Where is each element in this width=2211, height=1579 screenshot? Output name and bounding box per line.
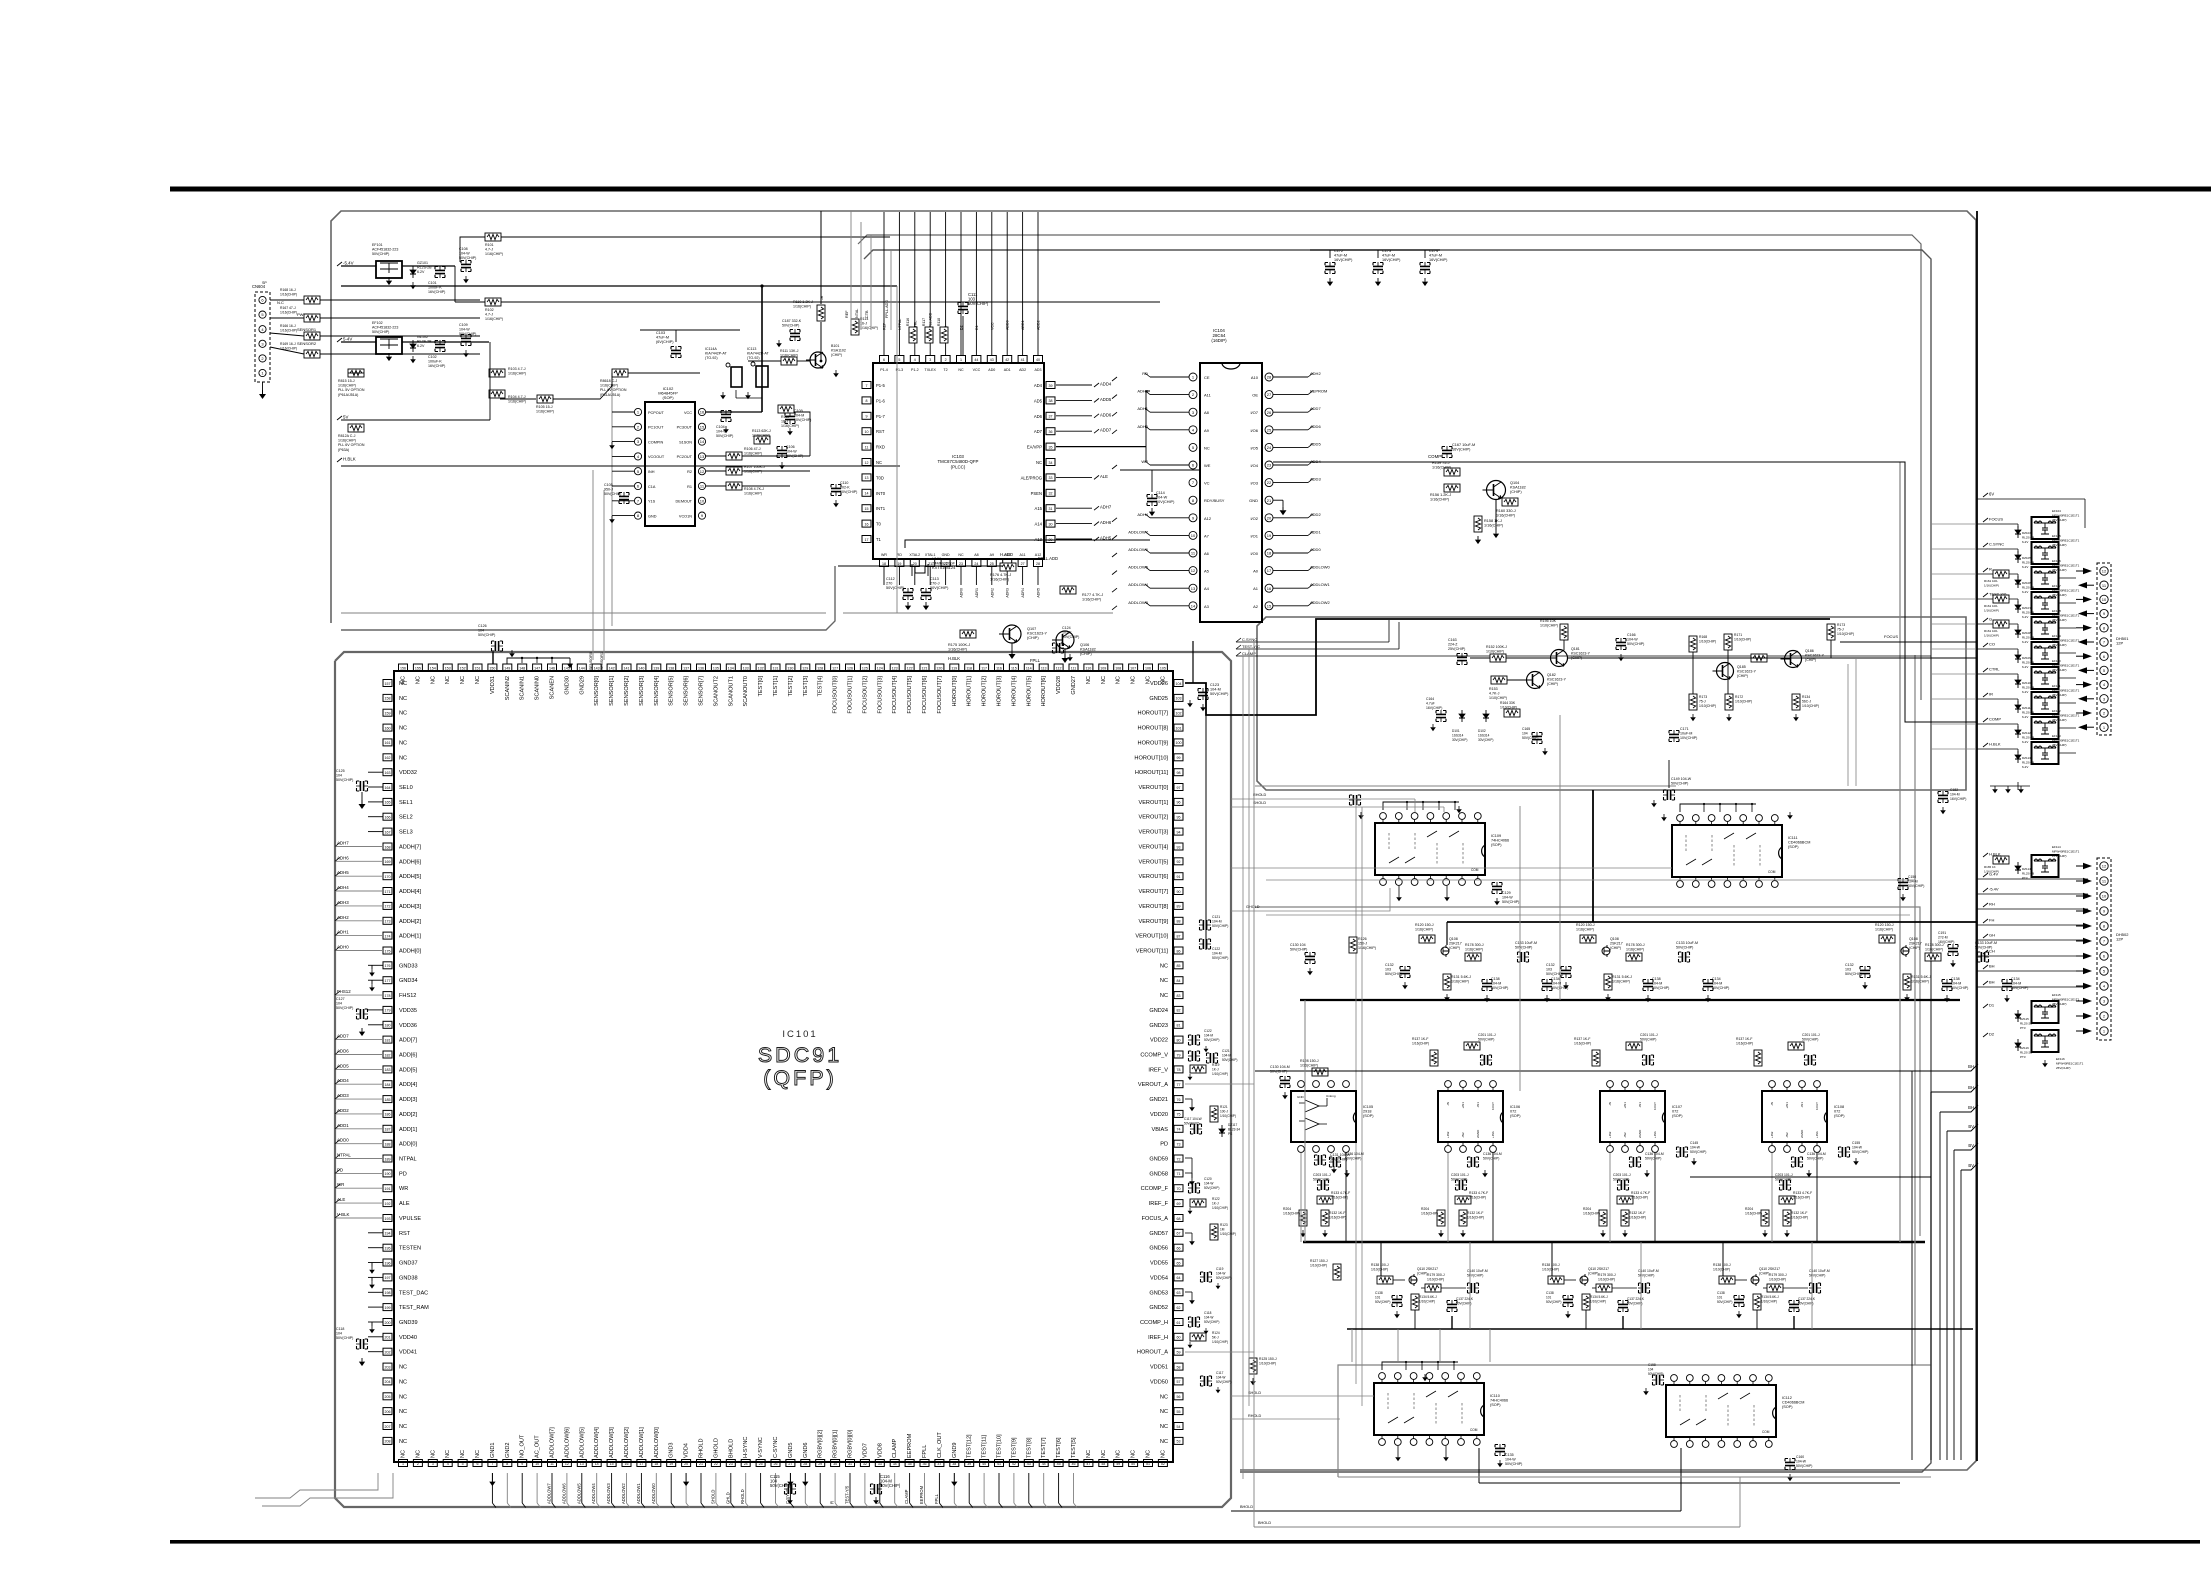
svg-text:60: 60 [1177, 1336, 1181, 1340]
resistor R171 vertical [1724, 634, 1732, 650]
svg-text:121: 121 [922, 666, 928, 670]
wire EF outputs to DH501 [2058, 577, 2076, 579]
IC109 top wires and grounds [1383, 802, 1459, 810]
capacitor C126 on container top [491, 641, 503, 651]
svg-text:50: 50 [1131, 1462, 1135, 1466]
svg-text:R156 1.2K-J: R156 1.2K-J [1430, 493, 1451, 497]
svg-text:12: 12 [2102, 864, 2107, 869]
wire scan bus above IC101 [507, 658, 570, 664]
svg-text:50V(CHIP): 50V(CHIP) [1184, 1122, 1199, 1126]
svg-text:50V(CHIP): 50V(CHIP) [1908, 884, 1924, 888]
svg-text:1M: 1M [1220, 1228, 1225, 1232]
svg-text:32: 32 [1049, 492, 1053, 496]
wire bottom switch box [1338, 1365, 1931, 1477]
svg-text:105: 105 [1160, 666, 1166, 670]
svg-text:IC105: IC105 [1363, 1105, 1373, 1109]
svg-text:ACF451832-223: ACF451832-223 [372, 248, 398, 252]
svg-text:SENSOR[7]: SENSOR[7] [699, 676, 705, 706]
svg-text:GND53: GND53 [1149, 1290, 1168, 1296]
capacitor C173 [1373, 262, 1383, 274]
svg-text:25V(CHIP): 25V(CHIP) [2052, 1002, 2067, 1006]
svg-text:NC: NC [1160, 978, 1168, 984]
svg-text:1/16(CHIP): 1/16(CHIP) [1451, 980, 1469, 984]
svg-text:ADD4: ADD4 [337, 1078, 349, 1083]
svg-text:1/16(CHIP): 1/16(CHIP) [948, 648, 968, 652]
svg-text:GHOLD: GHOLD [713, 1438, 719, 1458]
svg-text:GND29: GND29 [579, 676, 585, 695]
svg-text:GND56: GND56 [1149, 1246, 1168, 1252]
svg-text:AD4: AD4 [1034, 383, 1043, 388]
svg-text:139: 139 [653, 666, 659, 670]
svg-text:SEL1: SEL1 [399, 800, 413, 806]
svg-text:HOROUT[8]: HOROUT[8] [1138, 726, 1169, 732]
svg-text:1/10(CHIP): 1/10(CHIP) [1419, 1300, 1435, 1304]
svg-text:R133 4.7K-F: R133 4.7K-F [1631, 1191, 1650, 1195]
svg-text:GND52: GND52 [1149, 1305, 1168, 1311]
svg-text:1OUT: 1OUT [1815, 1102, 1819, 1110]
connector CN604 [255, 292, 270, 382]
svg-text:9: 9 [521, 1462, 523, 1466]
svg-text:163: 163 [385, 771, 391, 775]
svg-text:1K-J: 1K-J [1212, 1202, 1219, 1206]
svg-text:-IN: -IN [1446, 1102, 1450, 1106]
svg-text:19: 19 [669, 1462, 673, 1466]
svg-text:C1A: C1A [648, 485, 656, 489]
svg-text:1/16(CHIP): 1/16(CHIP) [1745, 1212, 1762, 1216]
svg-text:EF104: EF104 [2052, 509, 2061, 513]
capacitor C119 at VDD54 [1200, 1272, 1212, 1282]
svg-text:198: 198 [385, 1291, 391, 1295]
EMI filter EF114 [1983, 853, 1988, 857]
svg-text:VCC: VCC [973, 368, 981, 372]
svg-text:70: 70 [1177, 1187, 1181, 1191]
svg-text:50V(CHIP): 50V(CHIP) [1796, 1464, 1812, 1468]
svg-text:Unlong: Unlong [1326, 1094, 1336, 1098]
svg-text:2SK217: 2SK217 [1610, 942, 1623, 946]
svg-text:ADH3: ADH3 [337, 900, 349, 905]
capacitor C117 at VDD50 [1200, 1376, 1212, 1386]
svg-text:166: 166 [385, 816, 391, 820]
svg-text:C136 104-M: C136 104-M [1483, 1152, 1502, 1156]
svg-text:50V(CHIP): 50V(CHIP) [1645, 1157, 1661, 1161]
wire amp feeds [1563, 640, 1565, 650]
svg-text:4.7-J: 4.7-J [485, 248, 493, 252]
svg-text:186: 186 [385, 1113, 391, 1117]
transistor Q186 [1781, 651, 1802, 668]
svg-text:-IN1: -IN1 [1638, 1102, 1642, 1108]
svg-text:50V(CHIP): 50V(CHIP) [1546, 1300, 1561, 1304]
svg-text:1/10(CHIP): 1/10(CHIP) [1371, 1268, 1388, 1272]
svg-text:187: 187 [385, 1128, 391, 1132]
svg-text:N.C: N.C [277, 300, 284, 305]
capacitor C127 at IC101 left edge [356, 1009, 368, 1019]
svg-text:(SOP): (SOP) [1782, 1405, 1793, 1409]
svg-text:42: 42 [1012, 1462, 1016, 1466]
svg-text:183: 183 [385, 1068, 391, 1072]
svg-text:R177 4.7K-J: R177 4.7K-J [1082, 593, 1103, 597]
svg-text:R: R [830, 1501, 835, 1504]
svg-text:2GND: 2GND [1638, 1129, 1642, 1138]
svg-text:ADH6: ADH6 [337, 855, 349, 860]
svg-text:61: 61 [1177, 1321, 1181, 1325]
IC110 top wires [1382, 1362, 1458, 1370]
svg-text:A2: A2 [1253, 604, 1259, 609]
svg-text:203: 203 [385, 1365, 391, 1369]
EMI filter EF110 with zener DZ110 net CTRL [1983, 668, 1988, 672]
svg-text:C.SYNC: C.SYNC [1242, 637, 1257, 642]
svg-text:91: 91 [1177, 875, 1181, 879]
svg-text:VDD7: VDD7 [862, 1443, 868, 1458]
svg-text:C203 101-J: C203 101-J [1613, 1173, 1631, 1177]
svg-text:VDD55: VDD55 [1150, 1261, 1168, 1267]
resistor R110 vertical [817, 305, 825, 321]
svg-text:FPLL: FPLL [922, 1445, 928, 1458]
svg-text:138: 138 [668, 666, 674, 670]
svg-text:-5.4V: -5.4V [343, 261, 354, 266]
svg-text:R131 5.6K-J: R131 5.6K-J [1612, 975, 1632, 979]
svg-text:R122: R122 [1212, 1197, 1220, 1201]
svg-text:104-W: 104-W [1216, 1376, 1225, 1380]
svg-text:H-SYNC: H-SYNC [743, 1437, 749, 1458]
svg-text:R176 4.7K-J: R176 4.7K-J [990, 573, 1011, 577]
svg-text:S1SON: S1SON [679, 440, 692, 444]
svg-text:82: 82 [1177, 1009, 1181, 1013]
svg-text:R178 300-J: R178 300-J [1465, 943, 1484, 947]
svg-text:103: 103 [1176, 697, 1182, 701]
svg-text:R195 10K: R195 10K [1540, 619, 1557, 623]
svg-text:CCOMP_H: CCOMP_H [1140, 1320, 1168, 1326]
wire cap rail top right [1310, 249, 1440, 251]
svg-text:16: 16 [865, 522, 869, 526]
svg-text:4.7uF: 4.7uF [1426, 702, 1435, 706]
svg-text:1/16(CHIP): 1/16(CHIP) [1300, 1064, 1318, 1068]
svg-text:RHOLD: RHOLD [1253, 793, 1267, 797]
svg-text:R165 1K: R165 1K [1984, 865, 1996, 869]
svg-text:VBIAS: VBIAS [1152, 1127, 1169, 1133]
svg-text:13: 13 [1191, 586, 1196, 591]
svg-text:104-M: 104-M [1491, 982, 1501, 986]
IC102 right pins [698, 408, 705, 415]
svg-text:97: 97 [1177, 786, 1181, 790]
op-amp IC104 EEPROM body [1200, 363, 1262, 622]
IC104 right pins [1265, 373, 1273, 381]
transistor Q181 [1547, 650, 1568, 667]
svg-text:50V(CHIP): 50V(CHIP) [1852, 1150, 1868, 1154]
svg-text:180: 180 [385, 1024, 391, 1028]
svg-text:VCC: VCC [684, 411, 692, 415]
svg-text:25V(CHIP): 25V(CHIP) [2056, 1066, 2071, 1070]
svg-text:1/10(CHIP): 1/10(CHIP) [1540, 624, 1558, 628]
resistor R184 between Q185 Q186 [1751, 654, 1767, 662]
wire 5V rail [341, 419, 490, 421]
svg-text:ADD[6]: ADD[6] [399, 1053, 417, 1059]
IC101 top pin boxes row (pins 156-105) [399, 664, 408, 671]
svg-text:(SOP): (SOP) [1490, 1403, 1501, 1407]
svg-text:24: 24 [1267, 445, 1272, 450]
svg-text:TEST[2]: TEST[2] [788, 676, 794, 697]
svg-text:1/10(CHIP): 1/10(CHIP) [1310, 1264, 1327, 1268]
svg-text:35: 35 [908, 1462, 912, 1466]
svg-text:5: 5 [898, 358, 900, 362]
capacitor C120 at CCOMP_F [1188, 1183, 1200, 1193]
svg-text:101: 101 [1717, 1296, 1723, 1300]
zener GZ101 [410, 266, 416, 278]
svg-text:C160: C160 [1796, 1455, 1804, 1459]
svg-text:C201 101-J: C201 101-J [1478, 1033, 1496, 1037]
svg-text:XTAL2: XTAL2 [909, 553, 920, 557]
svg-text:41: 41 [1021, 358, 1025, 362]
svg-text:50V(CHIP): 50V(CHIP) [1491, 986, 1508, 990]
op-amp IC105 body [1291, 1091, 1356, 1142]
svg-text:R179 300-J: R179 300-J [1427, 1273, 1445, 1277]
EMI filter EF104 with zener DZ104 net FOCUS [1983, 518, 1988, 522]
svg-text:104-W: 104-W [1690, 1146, 1701, 1150]
svg-text:50V(CHIP): 50V(CHIP) [478, 633, 495, 637]
svg-text:R161 100-: R161 100- [1984, 604, 1998, 608]
resistor R166 [304, 332, 320, 340]
svg-text:42: 42 [1005, 358, 1009, 362]
svg-text:ADD[2]: ADD[2] [399, 1112, 417, 1118]
svg-text:JR: JR [820, 295, 824, 300]
EMI filter EF116 [1983, 1033, 1988, 1037]
svg-text:(CHIP): (CHIP) [1449, 946, 1460, 950]
wire VDD31 riser [492, 652, 494, 664]
svg-text:ADD6: ADD6 [337, 1049, 349, 1054]
svg-text:ADH1: ADH1 [1137, 406, 1148, 411]
svg-text:R166 16-J: R166 16-J [280, 324, 296, 328]
svg-text:50V(CHIP): 50V(CHIP) [1467, 1274, 1483, 1278]
svg-text:155: 155 [415, 666, 421, 670]
svg-text:KSA1102: KSA1102 [831, 349, 846, 353]
svg-text:104-W: 104-W [1852, 1146, 1863, 1150]
svg-text:54: 54 [1177, 1425, 1181, 1429]
svg-text:6-2V: 6-2V [2022, 565, 2028, 569]
svg-text:25V(CHIP): 25V(CHIP) [2052, 743, 2067, 747]
svg-text:20: 20 [684, 1462, 688, 1466]
wire riser x897 [896, 286, 898, 613]
svg-text:160: 160 [385, 726, 391, 730]
svg-text:IREF_F: IREF_F [1149, 1201, 1169, 1207]
svg-text:KIA7442P-AT: KIA7442P-AT [705, 352, 728, 356]
resistor R172 vertical [1725, 694, 1733, 710]
svg-text:6.2V: 6.2V [417, 344, 425, 348]
svg-text:ADR0: ADR0 [960, 588, 964, 598]
wire y613 long [341, 612, 826, 614]
svg-text:192: 192 [385, 1202, 391, 1206]
svg-text:NC: NC [1101, 1450, 1107, 1458]
svg-text:141: 141 [624, 666, 630, 670]
svg-text:ADR2: ADR2 [990, 588, 994, 598]
svg-text:DZ108: DZ108 [2022, 631, 2031, 635]
IC109 bottom grounds [1398, 886, 1400, 894]
resistor R113 [754, 436, 770, 444]
svg-text:40: 40 [982, 1462, 986, 1466]
svg-text:R134 5.6K-J: R134 5.6K-J [1419, 1295, 1437, 1299]
svg-text:77: 77 [1177, 1083, 1181, 1087]
resistor R126 left of DAC [1349, 937, 1357, 953]
svg-text:32: 32 [863, 1462, 867, 1466]
svg-text:TEST[3]: TEST[3] [803, 676, 809, 697]
svg-text:TEST_RAM: TEST_RAM [399, 1305, 429, 1311]
IC101 left pin boxes column (pins 157-208) [383, 680, 392, 687]
svg-text:NC: NC [1160, 1394, 1168, 1400]
svg-text:HOROUT[2]: HOROUT[2] [982, 676, 988, 707]
svg-text:4: 4 [914, 358, 916, 362]
svg-text:C121: C121 [1212, 915, 1220, 919]
svg-text:GND23: GND23 [1149, 1023, 1168, 1029]
EMI filter EF111 with zener DZ111 net IR [1983, 693, 1988, 697]
svg-text:1/16(CHIP): 1/16(CHIP) [793, 305, 811, 309]
svg-text:EF105: EF105 [2052, 534, 2061, 538]
sample-hold FET cluster at x=1385 [1377, 1276, 1393, 1284]
svg-text:200: 200 [385, 1321, 391, 1325]
svg-text:WR: WR [337, 1182, 344, 1187]
svg-text:1/10(CHIP): 1/10(CHIP) [1734, 638, 1751, 642]
svg-text:FOCUSOUT[7]: FOCUSOUT[7] [937, 676, 943, 714]
resistor R128 left of IC105 [1312, 1068, 1328, 1076]
svg-text:ADD7: ADD7 [337, 1034, 349, 1039]
svg-text:NTPAL: NTPAL [898, 319, 902, 330]
svg-text:R204: R204 [1421, 1207, 1429, 1211]
svg-text:50V(CHIP): 50V(CHIP) [1204, 1320, 1219, 1324]
svg-text:COM: COM [1470, 1428, 1478, 1432]
svg-text:R: R [1989, 567, 1992, 572]
svg-text:ADD[3]: ADD[3] [399, 1097, 417, 1103]
ground GND57 GND56 [1185, 1232, 1192, 1234]
svg-text:IC112: IC112 [1782, 1396, 1792, 1400]
ground arrows on IC101 left pins [371, 965, 373, 969]
svg-text:28: 28 [1267, 375, 1272, 380]
resistor R106 at IC102 PC2OUT [726, 452, 742, 460]
svg-text:MFW40RE1C1E1T1: MFW40RE1C1E1T1 [2052, 539, 2080, 543]
capacitor C118 at IC101 left edge [356, 1339, 368, 1349]
svg-text:7: 7 [866, 384, 868, 388]
svg-text:50V(CHIP): 50V(CHIP) [1712, 986, 1729, 990]
svg-text:143: 143 [594, 666, 600, 670]
svg-text:Q186: Q186 [1805, 649, 1814, 653]
svg-text:72: 72 [1177, 1157, 1181, 1161]
svg-text:8: 8 [506, 1462, 508, 1466]
svg-text:ALE: ALE [337, 1197, 345, 1202]
svg-text:16V(CHIP): 16V(CHIP) [1334, 258, 1353, 262]
svg-text:50V(CHIP): 50V(CHIP) [1951, 986, 1968, 990]
svg-text:66: 66 [1177, 1247, 1181, 1251]
svg-text:12: 12 [2102, 569, 2107, 574]
svg-text:C105: C105 [604, 483, 613, 487]
svg-text:R108 4.7K-J: R108 4.7K-J [744, 487, 764, 491]
svg-text:R812A C-J: R812A C-J [338, 434, 356, 438]
svg-text:168: 168 [385, 845, 391, 849]
svg-text:1/16(CHIP): 1/16(CHIP) [1082, 598, 1102, 602]
svg-text:CD4066BCM: CD4066BCM [1782, 1401, 1804, 1405]
op-amp IC101 SDC91 QFP body [394, 671, 1173, 1462]
svg-text:RHOLD: RHOLD [740, 1489, 745, 1504]
wires DAC section [1266, 914, 1910, 916]
svg-text:I/O5: I/O5 [1250, 445, 1258, 450]
svg-text:C112: C112 [886, 577, 895, 581]
svg-text:DZ116: DZ116 [2020, 1046, 2029, 1050]
svg-text:EF101: EF101 [372, 243, 383, 247]
svg-text:104-W: 104-W [1204, 1182, 1213, 1186]
svg-text:R121: R121 [1220, 1105, 1228, 1109]
svg-text:14: 14 [700, 439, 705, 444]
svg-text:1/10(CHIP): 1/10(CHIP) [1769, 1278, 1786, 1282]
wire 5-4V rail [341, 341, 376, 343]
svg-text:NC: NC [399, 726, 407, 732]
svg-text:MFW40RE1C1E1T1: MFW40RE1C1E1T1 [2052, 998, 2080, 1002]
capacitor C135 [1495, 1444, 1505, 1456]
wire H.ADD trunk [905, 540, 1150, 548]
svg-text:104: 104 [336, 1002, 342, 1006]
svg-text:EF116: EF116 [2056, 1057, 2065, 1061]
svg-text:NC: NC [1204, 445, 1210, 450]
svg-text:C171: C171 [1680, 727, 1689, 731]
svg-text:189: 189 [385, 1157, 391, 1161]
svg-text:185: 185 [385, 1098, 391, 1102]
svg-text:PS: PS [1228, 1132, 1232, 1136]
svg-text:50V(CHIP): 50V(CHIP) [840, 490, 857, 494]
svg-text:R120 150-J: R120 150-J [1875, 923, 1894, 927]
svg-text:71: 71 [1177, 1172, 1181, 1176]
svg-text:16: 16 [1267, 586, 1272, 591]
svg-text:RST: RST [876, 429, 885, 434]
svg-text:R169 16-J: R169 16-J [280, 342, 296, 346]
svg-text:(QFP): (QFP) [763, 1066, 837, 1090]
svg-text:R103 4.7-J: R103 4.7-J [508, 367, 526, 371]
svg-text:ADDLOW0: ADDLOW0 [651, 1483, 656, 1504]
capacitor C115 under IC101 [784, 1484, 796, 1494]
svg-text:ADDH[3]: ADDH[3] [399, 904, 422, 910]
svg-text:VDD8: VDD8 [877, 1443, 883, 1458]
transistor Q104 [1483, 481, 1506, 500]
svg-text:5: 5 [462, 1462, 464, 1466]
svg-text:1/16(CHIP): 1/16(CHIP) [1421, 1212, 1438, 1216]
svg-text:50V(CHIP): 50V(CHIP) [336, 1336, 353, 1340]
svg-text:SCANIN0: SCANIN0 [535, 676, 541, 700]
capacitor C125 at IC101 left edge [356, 781, 368, 791]
wire amp exit FOCUS [1830, 640, 1832, 658]
svg-text:R110 1-2K-J: R110 1-2K-J [793, 300, 813, 304]
svg-text:A14: A14 [1035, 522, 1043, 527]
svg-text:44: 44 [1042, 1462, 1046, 1466]
svg-text:NC: NC [399, 1365, 407, 1371]
svg-text:(CHIP): (CHIP) [1610, 946, 1621, 950]
svg-text:1/16(CHIP): 1/16(CHIP) [536, 410, 554, 414]
svg-text:ADD7: ADD7 [1100, 428, 1112, 433]
svg-text:GND9: GND9 [952, 1442, 958, 1458]
svg-text:VEROUT[9]: VEROUT[9] [1138, 919, 1168, 925]
svg-text:NC: NC [399, 1409, 407, 1415]
svg-text:H.ADD: H.ADD [1000, 552, 1013, 557]
svg-text:10: 10 [2102, 597, 2107, 602]
svg-text:104-W: 104-W [1216, 1272, 1225, 1276]
svg-text:C110: C110 [840, 481, 848, 485]
svg-text:AD6: AD6 [1034, 414, 1043, 419]
svg-text:R173: R173 [1699, 695, 1707, 699]
svg-text:169: 169 [385, 860, 391, 864]
svg-text:GND33: GND33 [399, 963, 418, 969]
wire thick bus from VDD26 to amp rail [1185, 619, 1830, 715]
capacitor C105 at IC102 left [619, 492, 629, 504]
svg-text:47: 47 [1086, 1462, 1090, 1466]
svg-text:1/10(CHIP): 1/10(CHIP) [1699, 640, 1716, 644]
svg-text:A4: A4 [1204, 586, 1210, 591]
svg-text:50V(CHIP): 50V(CHIP) [1798, 1302, 1813, 1306]
svg-text:20: 20 [913, 562, 917, 566]
svg-text:FPLL.ADD: FPLL.ADD [885, 300, 889, 318]
capacitor C155 right of IC108 [1838, 1147, 1850, 1157]
svg-text:CLK_OUT: CLK_OUT [937, 1432, 943, 1458]
